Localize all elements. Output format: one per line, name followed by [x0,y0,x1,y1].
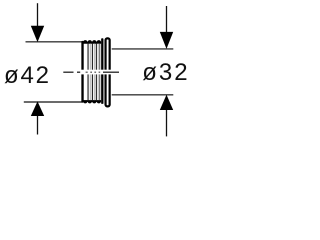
extension line ø42 top [26,41,83,43]
centerline dot left [77,71,80,73]
dimension arrow bottom-right shaft [166,108,168,136]
extension line ø32 bottom [112,94,174,96]
dimension arrow top-right head [160,32,173,49]
centerline dash right [103,71,119,73]
centerline dashes across body [86,71,101,73]
extension line ø42 bottom [24,101,83,103]
centerline white break band [81,70,112,75]
rib line 6 (light) [97,44,99,101]
extension line ø32 top [112,48,174,50]
rib line 2 (light) [89,44,91,101]
fitting left edge bar [81,41,83,103]
svg-text:ø32: ø32 [142,59,189,86]
dimension arrow bottom-right head [160,95,173,110]
rib line 3 [91,44,93,101]
dimension arrow top-left shaft [37,3,39,30]
rib line 5 [95,44,97,101]
dimension arrow bottom-left head [31,101,44,116]
dimension arrow top-right shaft [166,6,168,33]
svg-text:ø42: ø42 [4,62,51,89]
flange outline [106,38,110,106]
rib line 4 (light) [93,44,95,101]
rib line 1 [87,44,89,101]
centerline dash left [63,71,73,73]
fitting top scalloped edge [83,40,101,44]
rib line 7 (medium) [99,44,101,101]
dimension arrow bottom-left shaft [37,113,39,135]
fitting bottom scalloped edge [83,100,101,103]
dimension arrow top-left head [31,26,44,42]
collar bar [101,38,103,104]
